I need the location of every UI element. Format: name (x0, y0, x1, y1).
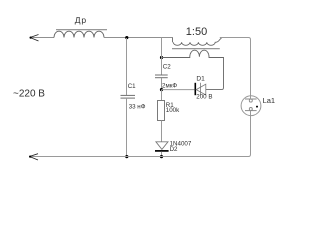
svg-text:D1: D1 (196, 76, 205, 83)
arrow top-left (30, 35, 39, 42)
capacitor C2 plates (155, 74, 168, 76)
svg-text:C2: C2 (163, 64, 171, 71)
capacitor C1 plates (121, 94, 136, 96)
node junction dot bottom D2 (160, 155, 163, 158)
transformer core line (172, 48, 220, 50)
transformer T1 primary winding (173, 38, 222, 46)
svg-text:C1: C1 (128, 83, 136, 90)
wire C2 vertical upper (161, 58, 163, 75)
svg-text:1:50: 1:50 (186, 26, 207, 38)
wire node to D1 (162, 89, 195, 91)
lamp wire stubs (250, 96, 252, 116)
dynistor D1 cathode bar (194, 83, 196, 95)
lamp gas dot (256, 106, 258, 108)
wire R1 top (161, 90, 163, 101)
wire top rail right (220, 38, 251, 96)
node junction dot C2 bottom (160, 88, 163, 91)
node junction dot bottom C1 (125, 155, 128, 158)
wire top rail mid (104, 37, 173, 39)
lamp bottom electrode (245, 110, 257, 112)
diode D2 cathode bar (155, 150, 169, 152)
svg-text:100k: 100k (166, 107, 180, 114)
dynistor D1 triangle (196, 84, 206, 95)
wire top rail left (31, 37, 55, 39)
dynistor D1 transverse line (200, 83, 202, 96)
svg-text:La1: La1 (263, 96, 276, 105)
wire top rail branch down to node (161, 38, 163, 58)
transformer T1 secondary winding (162, 50, 224, 89)
inductor Др core line (56, 29, 107, 31)
wire C2 vertical lower (161, 78, 163, 90)
svg-text:33 нФ: 33 нФ (129, 103, 146, 110)
wire R1 bottom to D2 (161, 121, 163, 142)
svg-text:200 В: 200 В (196, 94, 212, 101)
node junction dot secondary/C2 (160, 56, 163, 59)
wire bottom rail (30, 116, 251, 157)
resistor R1 body (158, 101, 165, 121)
svg-text:2мкФ: 2мкФ (162, 82, 177, 89)
lamp top electrode (245, 98, 257, 100)
node junction dot top C1 (125, 36, 128, 39)
inductor Др humps (54, 31, 104, 37)
wire D2 to bottom rail (161, 152, 163, 157)
arrow bottom-left (30, 154, 39, 160)
svg-text:D2: D2 (170, 146, 178, 153)
wire C1 vertical upper (126, 38, 128, 95)
lamp La1 circle (241, 96, 261, 116)
svg-text:~220 В: ~220 В (13, 88, 45, 99)
svg-text:Др: Др (75, 15, 87, 25)
diode D2 triangle (156, 142, 168, 150)
wire C1 vertical lower (126, 98, 128, 157)
